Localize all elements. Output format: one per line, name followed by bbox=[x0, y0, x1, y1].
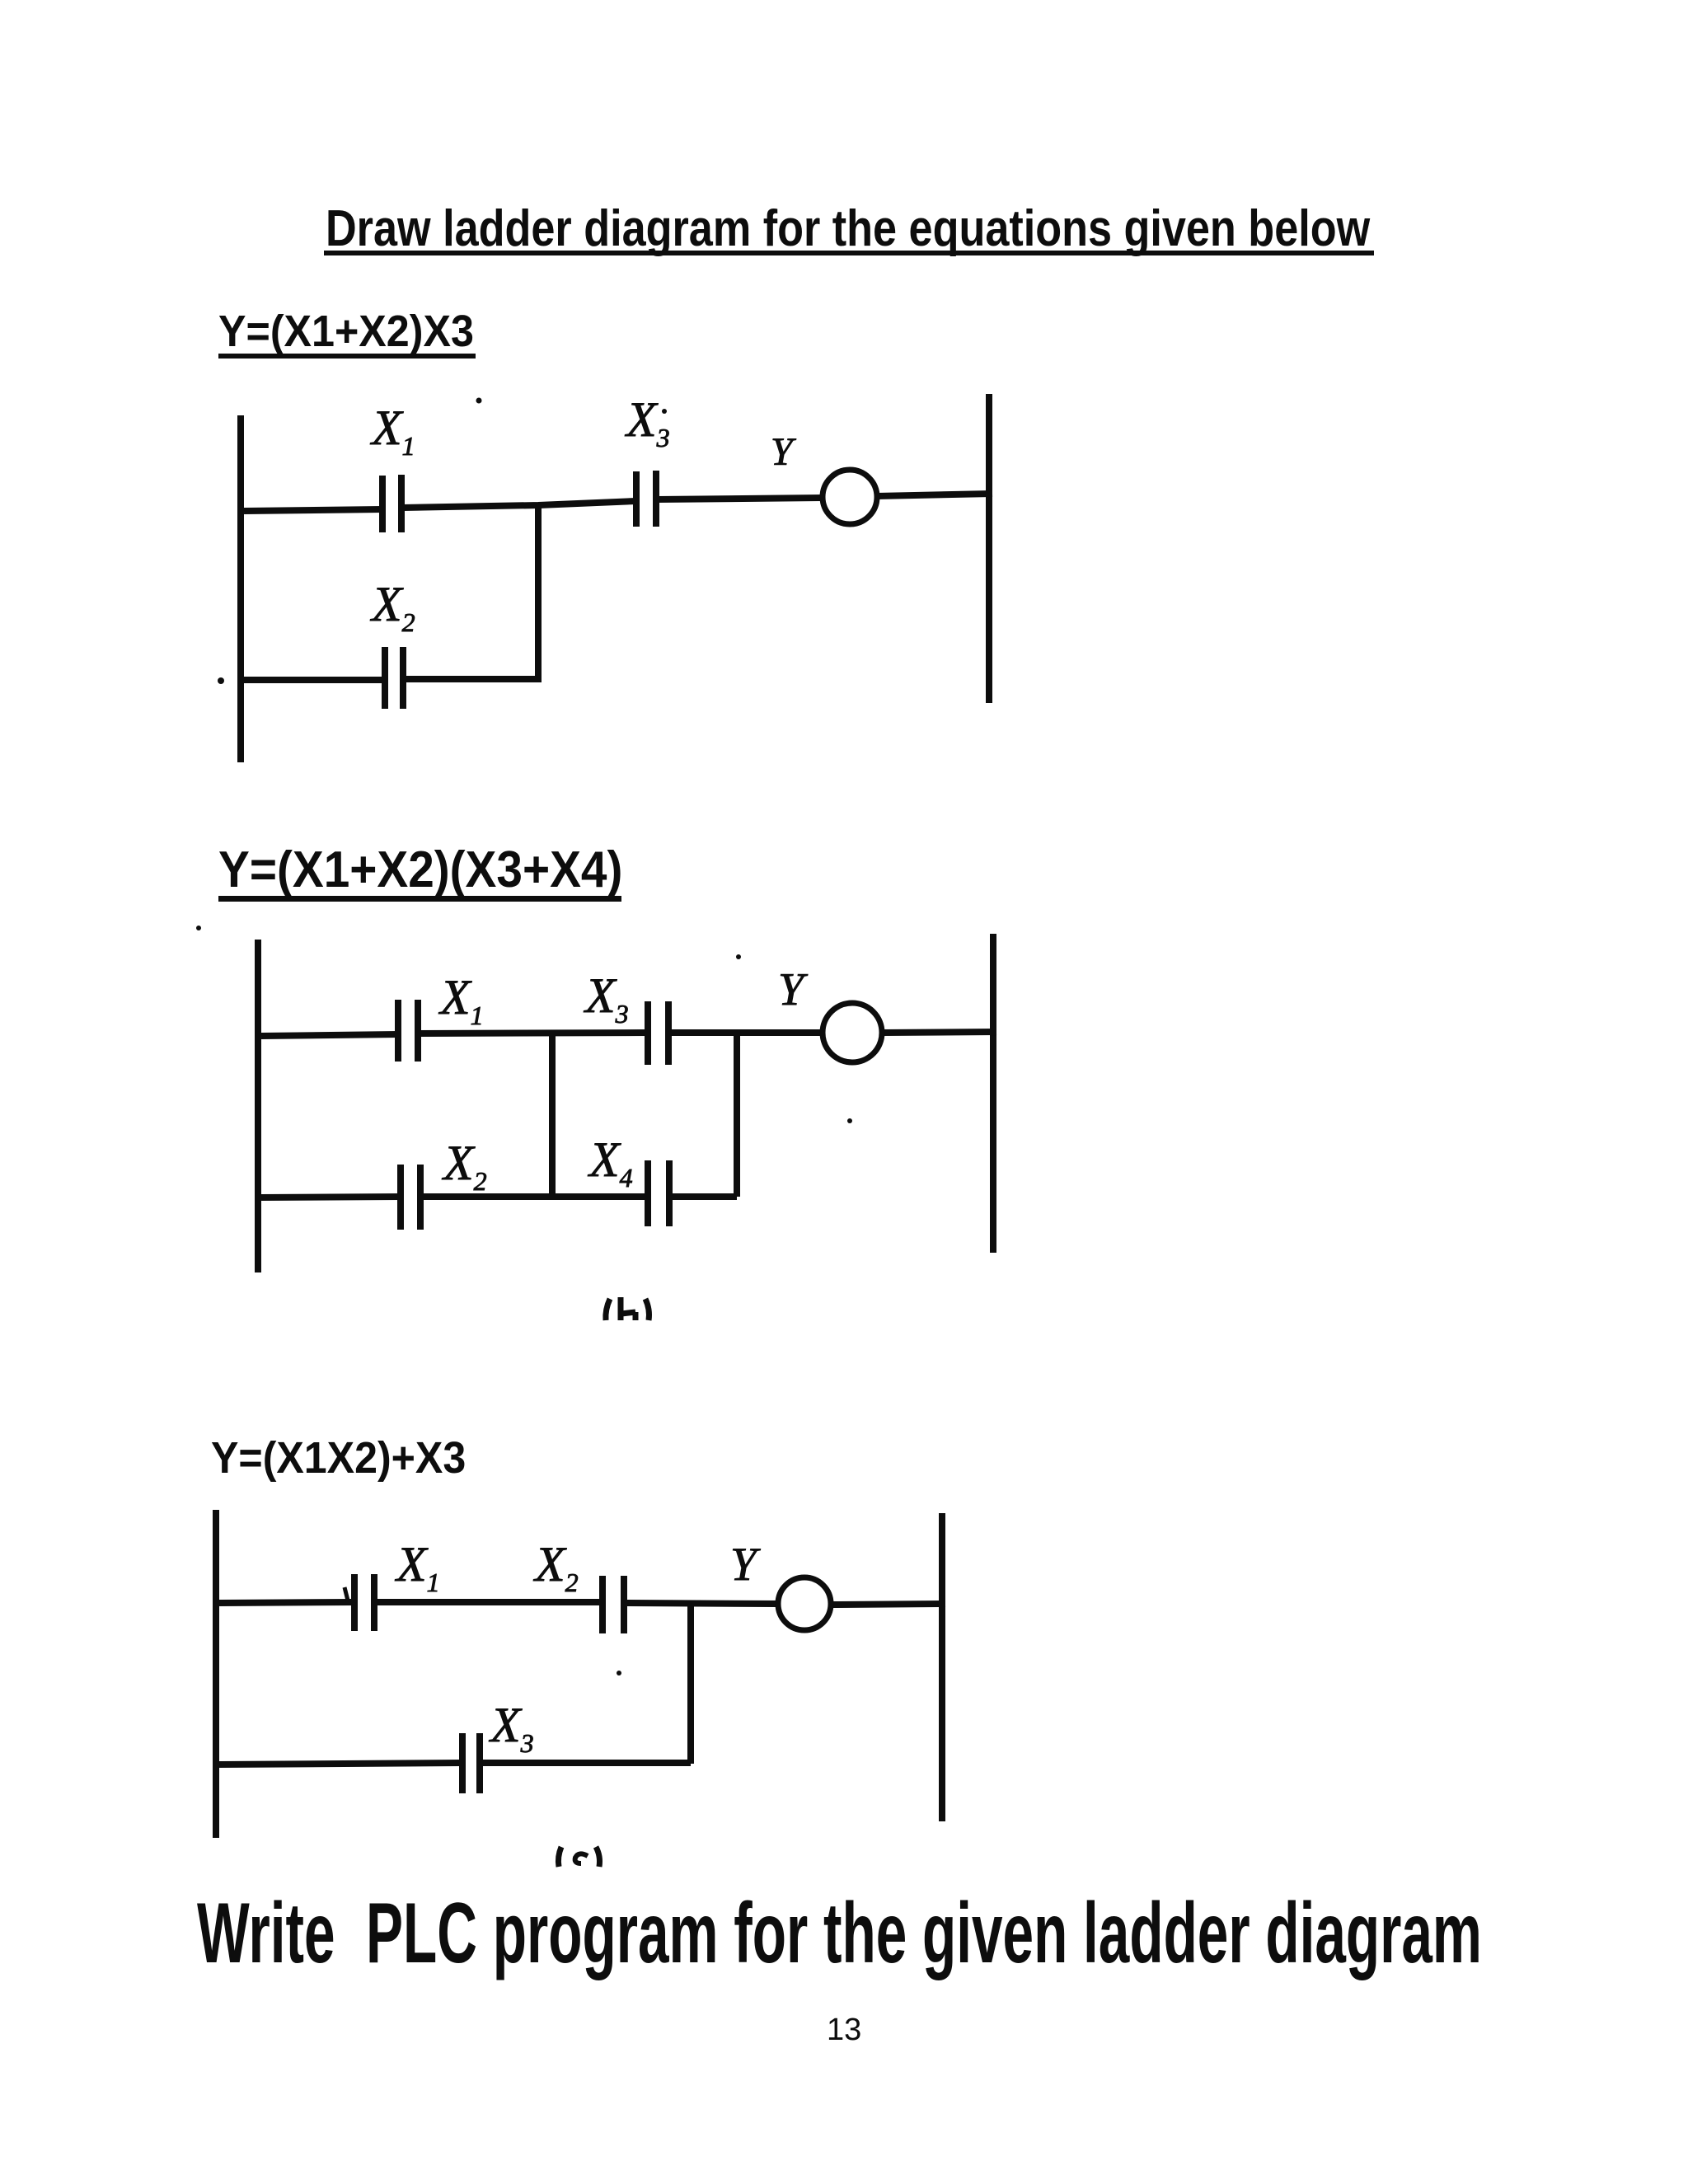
svg-text:X3: X3 bbox=[625, 392, 670, 452]
svg-text:X1: X1 bbox=[370, 401, 415, 461]
svg-text:X2: X2 bbox=[442, 1136, 487, 1196]
svg-text:Y: Y bbox=[730, 1539, 761, 1591]
svg-text:X3: X3 bbox=[489, 1698, 534, 1758]
svg-text:Y: Y bbox=[771, 430, 796, 474]
svg-text:X1: X1 bbox=[438, 970, 484, 1030]
svg-text:X3: X3 bbox=[584, 968, 629, 1029]
svg-text:Y: Y bbox=[778, 964, 809, 1015]
svg-text:X2: X2 bbox=[533, 1537, 579, 1597]
svg-text:X2: X2 bbox=[370, 577, 415, 637]
svg-text:X1: X1 bbox=[395, 1537, 440, 1597]
svg-text:X4: X4 bbox=[588, 1132, 633, 1193]
